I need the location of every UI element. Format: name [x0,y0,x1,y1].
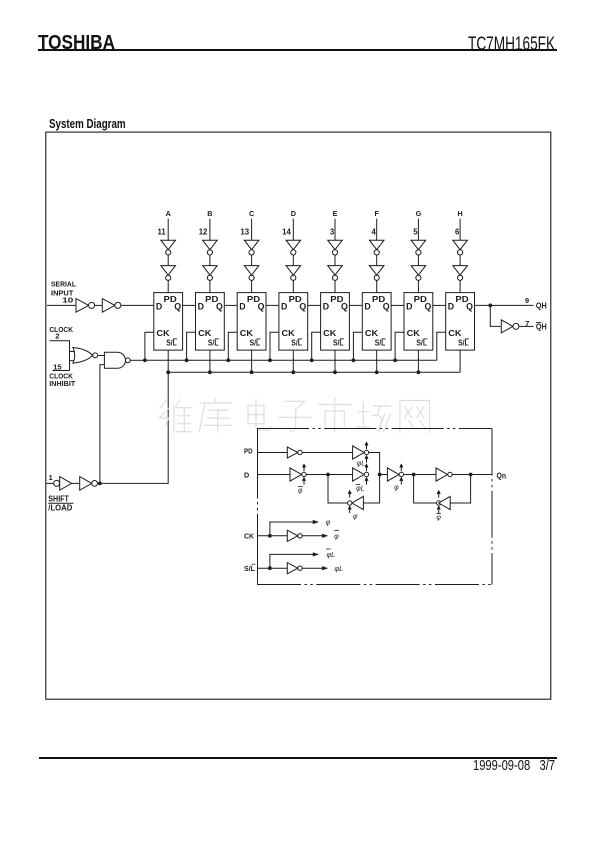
svg-text:G: G [416,209,422,218]
svg-text:12: 12 [199,228,208,237]
wire D1 to D2 [292,255,294,266]
label SERIAL INPUT pin 10 [51,279,76,304]
input C pin 13 label and lead wire [240,209,254,240]
wire phi-bar output [302,535,327,537]
clocked inverter phi-bar (latch2 feedback) [436,490,450,521]
wire Q6 to D7 [391,304,404,306]
svg-text:Q: Q [258,302,265,312]
wire S/L riser FF4 [292,350,294,372]
junction CK bus tap FF3 [226,358,230,362]
svg-text:S/L: S/L [416,339,427,348]
svg-text:CK: CK [156,329,169,338]
detail cell boundary (dash-dot box) [257,429,492,585]
wire S/L riser FF5 [334,350,336,372]
wire Q3 to D4 [266,304,279,306]
wire F2 to PD of FF6 [376,280,378,292]
flip-flop stage FF4 (PD/D/Q/CK/S-L box) [279,293,308,351]
wire S/L bus [168,371,460,373]
svg-text:/LOAD: /LOAD [48,503,72,513]
inverter buffer B2 [203,266,218,281]
wire S/L riser FF1 [167,350,169,372]
wire B2 to PD of FF2 [209,280,211,292]
wire H1 to H2 [459,255,461,266]
clocked inverter phi (master-slave transfer) [387,464,403,492]
svg-text:SERIAL: SERIAL [51,279,76,288]
wire Q8 to QH output pin 9 [475,304,534,306]
inverter shift/load buffer 2 [80,477,98,491]
wire A2 to PD of FF1 [167,280,169,292]
wire gated clock output to CK bus [130,359,145,361]
inverter serial buffer 1 [76,299,95,313]
clocked inverter phi (latch1 feedback) [348,490,364,520]
clocked inverter phi-bar-L (latch1 forward) [353,464,369,493]
svg-text:C: C [249,209,254,218]
wire CK stub FF5 [312,332,321,360]
wire phi-L output [302,567,327,569]
inverter buffer A1 [161,240,176,255]
junction node B [378,473,382,477]
inverter serial buffer 2 [102,299,121,313]
label CLOCK pin 2 [49,325,73,340]
wire NOR input stubs [70,352,75,361]
svg-text:S/L: S/L [458,339,469,348]
svg-text:φ: φ [298,487,303,494]
junction S/L bus tap FF3 [250,370,254,374]
inverter cell-PD [287,447,302,458]
inverter buffer C2 [244,266,259,281]
input H pin 6 label and lead wire [455,209,463,240]
wire E1 to E2 [334,255,336,266]
svg-text:Q: Q [299,302,306,312]
flip-flop stage FF2 (PD/D/Q/CK/S-L box) [196,293,225,351]
svg-text:D: D [323,302,329,312]
wire PD gate output down to node B [369,453,380,475]
svg-text:Q: Q [341,302,348,312]
junction node D [469,473,473,477]
junction CK bus tap FF5 [310,358,314,362]
wire S/L riser FF2 [209,350,211,372]
svg-text:CK: CK [244,532,255,541]
inverter buffer F2 [369,266,384,281]
svg-text:10: 10 [62,295,73,304]
svg-text:φL: φL [326,550,335,559]
wire CK stub FF3 [228,332,237,360]
wire CK stub FF6 [353,332,362,360]
wire QH-bar to pin 7 [519,325,534,327]
wire S/L riser FF7 [417,350,419,372]
inverter CK (phi-bar driver) [287,530,302,541]
wire transfer gate to node C [404,474,437,476]
wire shift/load lead [46,482,53,484]
inverter buffer F1 [369,240,384,255]
svg-text:CK: CK [323,329,336,338]
wire G1 to G2 [417,255,419,266]
svg-text:13: 13 [240,228,249,237]
junction S/L bus tap FF1 [166,370,170,374]
svg-text:φL: φL [334,564,343,573]
junction CK bus tap FF6 [352,358,356,362]
svg-text:D: D [156,302,162,312]
inverter buffer G2 [411,266,426,281]
wire CK stub FF2 [187,332,196,360]
title System Diagram [49,116,126,131]
wire Q1 to D2 [183,304,196,306]
wire output driver to Qn [452,474,492,476]
svg-text:S/L: S/L [208,339,219,348]
input D pin 14 label and lead wire [282,209,296,240]
svg-text:CK: CK [282,329,295,338]
junction CK tap [268,534,272,538]
svg-text:Q: Q [216,302,223,312]
svg-text:14: 14 [282,228,291,237]
inverter buffer B1 [203,240,218,255]
wire CK bus [145,359,437,361]
svg-text:φ: φ [326,518,331,527]
wire CK branch to phi output [270,522,318,536]
junction CK bus tap FF7 [393,358,397,362]
svg-text:15: 15 [53,363,62,372]
inverter cell output driver [436,468,452,481]
wire S/L lead [258,567,288,569]
label CLOCK INHIBIT pin 15 [49,363,75,388]
wire QH node down to inverter [490,305,500,326]
wire B1 to B2 [209,255,211,266]
junction QH node [488,304,492,308]
junction S/L bus tap FF6 [375,370,379,374]
flip-flop stage FF6 (PD/D/Q/CK/S-L box) [362,293,391,351]
clocked inverter phi-L (PD load gate) [353,442,369,468]
flip-flop stage FF7 (PD/D/Q/CK/S-L box) [404,293,433,351]
wire latch1 feedback input from node B [363,475,379,504]
wire C1 to C2 [251,255,253,266]
header brand TOSHIBA [38,32,115,55]
header rule [38,49,557,51]
input E pin 3 label and lead wire [330,209,338,240]
junction CK bus tap FF2 [185,358,189,362]
svg-text:S/L: S/L [291,339,302,348]
svg-text:D: D [239,302,245,312]
wire serial buffer to D of FF1 [121,304,154,306]
wire between shift/load buffers [72,482,80,484]
junction S/L bus tap FF2 [208,370,212,374]
wire Q5 to D6 [349,304,362,306]
svg-text:QH: QH [536,323,547,332]
input B pin 12 label and lead wire [199,209,213,240]
wire A1 to A2 [167,255,169,266]
wire between serial buffers [95,304,103,306]
inverter U3 (QH-bar driver) [501,320,519,333]
svg-text:S/L: S/L [250,339,261,348]
svg-text:CLOCK: CLOCK [49,325,73,334]
wire NOR to NAND [98,355,105,357]
NAND gate U2 (gated clock) [104,352,130,368]
junction CK bus tap FF4 [268,358,272,362]
junction S/L tap [268,566,272,570]
wire D gate to node A [306,474,352,476]
svg-text:Q: Q [466,302,473,312]
svg-text:Q: Q [383,302,390,312]
svg-text:5: 5 [413,228,418,237]
label pin 7 QH-bar [525,319,547,332]
input F pin 4 label and lead wire [372,209,380,240]
svg-text:A: A [166,209,171,218]
svg-text:CK: CK [365,329,378,338]
NOR gate U1 (clock gate) [73,348,98,364]
junction CK bus tap FF1 [143,358,147,362]
junction node A [326,473,330,477]
input G pin 5 label and lead wire [413,209,421,240]
svg-text:φ: φ [334,531,339,540]
inverter S/L (phi-L driver) [287,563,302,574]
wire shift/load to S/L bus feed [98,372,169,483]
svg-text:D: D [281,302,287,312]
svg-text:φ: φ [353,514,358,521]
svg-text:S/L: S/L [244,564,256,573]
svg-text:H: H [457,209,462,218]
svg-text:6: 6 [455,228,460,237]
wire CK stub FF1 [145,332,154,360]
svg-text:φL: φL [356,485,365,492]
svg-text:3: 3 [330,228,335,237]
input A pin 11 label and lead wire [157,209,170,240]
junction node C [412,473,416,477]
svg-text:PD: PD [244,447,253,456]
wire PD lead [258,452,288,454]
svg-text:D: D [198,302,204,312]
svg-text:QH: QH [536,302,547,311]
inverter buffer E2 [328,266,343,281]
inverter buffer H2 [453,266,468,281]
inverter buffer C1 [244,240,259,255]
inverter buffer G1 [411,240,426,255]
wire node B to transfer gate [380,474,388,476]
svg-text:CK: CK [448,329,461,338]
svg-text:F: F [375,209,380,218]
wire CLOCK INHIBIT lead [52,370,69,372]
svg-text:S/L: S/L [166,339,177,348]
label phi-bar [334,530,339,540]
svg-text:2: 2 [55,332,59,341]
wire Q2 to D3 [224,304,237,306]
svg-text:S/L: S/L [375,339,386,348]
footer rule [39,757,557,759]
junction S/L bus tap FF4 [291,370,295,374]
flip-flop stage FF5 (PD/D/Q/CK/S-L box) [321,293,350,351]
inverter buffer A2 [161,266,176,281]
wire F1 to F2 [376,255,378,266]
svg-text:4: 4 [372,228,377,237]
header part number TC7MH165FK [468,34,555,56]
wire Q7 to D8 [433,304,446,306]
svg-text:7: 7 [525,319,529,328]
svg-text:E: E [333,209,338,218]
svg-text:D: D [364,302,370,312]
wire latch2 feedback output to node C [414,475,437,504]
wire D2 to PD of FF4 [292,280,294,292]
svg-text:9: 9 [525,296,529,305]
wire CK stub FF7 [395,332,404,360]
svg-text:CK: CK [198,329,211,338]
inverter shift/load buffer 1 (input bubble) [54,477,72,491]
svg-text:φL: φL [357,460,366,467]
wire CK lead [258,535,288,537]
wire G2 to PD of FF7 [417,280,419,292]
svg-text:Q: Q [424,302,431,312]
wire CK stub FF4 [270,332,279,360]
svg-text:S/L: S/L [333,339,344,348]
inverter buffer D1 [286,240,301,255]
svg-text:INHIBIT: INHIBIT [49,379,75,388]
wire E2 to PD of FF5 [334,280,336,292]
svg-text:φ: φ [436,515,441,522]
svg-text:D: D [448,302,454,312]
wire D lead [258,474,291,476]
wire S/L branch to phi-bar-L output [270,554,318,568]
wire S/L riser FF3 [251,350,253,372]
label SHIFT/LOAD pin 1 [48,473,73,513]
svg-text:D: D [406,302,412,312]
wire PD inverter to clocked inverter [302,452,352,454]
svg-text:φ: φ [394,484,399,491]
svg-text:D: D [244,470,249,479]
footer date and page number [473,757,555,774]
diagram outer frame [46,132,551,699]
svg-text:Q: Q [174,302,181,312]
flip-flop stage FF8 (PD/D/Q/CK/S-L box) [446,293,475,351]
clocked inverter phi-bar (D shift gate) [290,464,306,495]
flip-flop stage FF1 (PD/D/Q/CK/S-L box) [154,293,183,351]
wire serial input lead [47,304,76,306]
label S/L-bar (cell input) [244,564,256,573]
svg-text:Qn: Qn [497,472,507,481]
flip-flop stage FF3 (PD/D/Q/CK/S-L box) [237,293,266,351]
junction S/L bus tap FF5 [333,370,337,374]
svg-text:D: D [291,209,296,218]
svg-text:11: 11 [157,228,166,237]
wire NAND lower input from shift/load [100,365,105,484]
wire H2 to PD of FF8 [459,280,461,292]
wire Q4 to D5 [308,304,321,306]
inverter buffer H1 [453,240,468,255]
wire S/L riser FF8 [459,350,461,372]
inverter buffer E1 [328,240,343,255]
svg-text:CK: CK [240,329,253,338]
junction shift/load node [98,482,102,486]
wire S/L riser FF6 [376,350,378,372]
svg-text:1: 1 [48,473,53,482]
wire CK stub FF8 [437,332,446,360]
wire node A down to latch1 feedback [328,475,348,504]
junction S/L bus tap FF7 [417,370,421,374]
inverter buffer D2 [286,266,301,281]
label pin 9 QH [525,296,547,311]
wire C2 to PD of FF3 [251,280,253,292]
watermark text (decorative) [159,398,430,432]
label phi-bar-L [326,549,335,559]
svg-text:B: B [207,209,212,218]
svg-text:CK: CK [407,329,420,338]
wire CLOCK pin 2 to NOR input [50,341,70,371]
wire node D down to latch2 feedback [450,475,470,504]
